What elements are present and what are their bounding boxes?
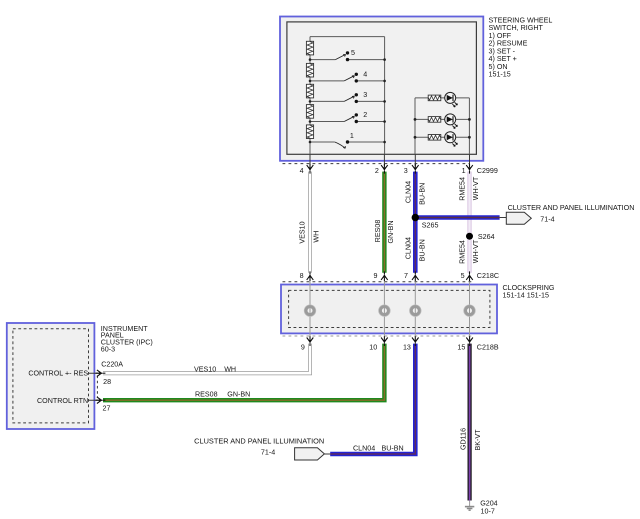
svg-text:BU-BN: BU-BN <box>419 239 427 261</box>
svg-text:WH-VT: WH-VT <box>472 239 480 263</box>
switch 5 <box>335 49 355 61</box>
svg-text:GN-BN: GN-BN <box>387 220 395 243</box>
resistor R2 <box>306 63 313 77</box>
svg-text:60-3: 60-3 <box>101 345 115 353</box>
branch wire from S265 to cluster illumination <box>415 215 499 220</box>
svg-text:5: 5 <box>461 272 465 280</box>
LED D2 <box>445 114 458 128</box>
switch 1 (open) <box>335 132 354 148</box>
switch row 4 wire <box>310 80 385 82</box>
top wire of switch pack <box>310 36 385 38</box>
steering wheel switch inner component box <box>287 22 477 154</box>
switch row 5 wire <box>310 59 385 61</box>
offpage connector: cluster and panel illumination (top) <box>506 212 531 224</box>
svg-text:4: 4 <box>363 71 367 79</box>
pin arrow C2999 pin2 <box>381 164 388 174</box>
switch 3 <box>344 91 367 103</box>
svg-text:7: 7 <box>404 272 408 280</box>
LED right bus <box>468 98 470 154</box>
pin arrow C2999 pin4 <box>307 164 314 174</box>
wire RES08 GN-BN pin10 to IPC pin27 <box>103 344 384 401</box>
svg-text:CLN04: CLN04 <box>405 181 413 203</box>
switch row 3 wire <box>310 100 385 102</box>
C218C pin labels <box>300 272 499 280</box>
IPC connector box <box>7 323 95 429</box>
IPC caption <box>101 325 153 353</box>
svg-text:9: 9 <box>301 344 305 352</box>
svg-text:VES10: VES10 <box>194 365 216 373</box>
pin arrow C218B pin10 <box>381 336 388 346</box>
ground G204 symbol <box>465 507 474 511</box>
IPC pin link lines <box>88 373 99 400</box>
switch 4 <box>344 71 367 83</box>
svg-text:C220A: C220A <box>101 360 123 368</box>
LED resistor row3 <box>428 135 441 141</box>
switch row 2 wire <box>310 121 385 123</box>
pin arrow C218C pin8 <box>307 271 314 281</box>
LED row 3 wires <box>415 136 469 138</box>
svg-text:4: 4 <box>300 167 304 175</box>
switch output bus <box>384 37 386 155</box>
pin arrow C218C pin7 <box>412 271 419 281</box>
resistor R5 <box>306 125 313 139</box>
clockspring internal wire 1 <box>309 282 311 334</box>
svg-text:RES08: RES08 <box>195 390 218 398</box>
svg-text:CLUSTER AND PANEL ILLUMINATION: CLUSTER AND PANEL ILLUMINATION <box>194 437 324 445</box>
connector C218B dashed line <box>283 335 474 337</box>
clockspring coil 1 <box>304 305 316 317</box>
offpage connector: cluster and panel illumination (bottom) <box>295 448 325 460</box>
svg-text:1: 1 <box>350 132 354 140</box>
clockspring coil 3 <box>410 305 422 317</box>
LED D3 <box>445 132 458 147</box>
svg-text:BK-VT: BK-VT <box>474 429 482 451</box>
svg-text:S264: S264 <box>478 233 495 241</box>
svg-text:S265: S265 <box>422 221 439 229</box>
connector C2999 dashed line <box>283 163 470 165</box>
svg-text:CLUSTER AND PANEL ILLUMINATION: CLUSTER AND PANEL ILLUMINATION <box>508 204 635 212</box>
resistor R1 <box>306 41 313 55</box>
LED resistor row1 <box>428 95 441 101</box>
wire RES08 GN-BN pin2 to pin9 <box>382 172 386 273</box>
svg-text:13: 13 <box>403 344 411 352</box>
LED row 2 wires <box>415 118 469 120</box>
splice S264 <box>466 233 473 240</box>
IPC dashed component outline <box>13 329 89 423</box>
IPC pin texts <box>28 360 123 412</box>
clockspring internal wire 4 <box>469 282 471 334</box>
svg-text:1: 1 <box>462 167 466 175</box>
svg-text:RME54: RME54 <box>458 240 466 264</box>
svg-text:10-7: 10-7 <box>481 507 495 515</box>
svg-text:151-14 151-15: 151-14 151-15 <box>503 292 549 300</box>
svg-text:GD116: GD116 <box>459 428 467 450</box>
pin arrow C2999 pin1 <box>466 164 473 174</box>
pin arrow C2999 pin3 <box>412 164 419 174</box>
clockspring internal wire 3 <box>414 282 416 334</box>
pin arrow C220A pin27 <box>96 397 106 404</box>
svg-text:WH: WH <box>313 231 321 243</box>
svg-text:15: 15 <box>457 344 465 352</box>
connector C220A dashed stub <box>96 376 98 398</box>
switch row 1 wire <box>310 141 385 143</box>
clockspring internal wire 2 <box>383 282 385 334</box>
svg-text:27: 27 <box>103 405 111 413</box>
svg-text:28: 28 <box>103 378 111 386</box>
stub wires below clockspring <box>310 333 470 337</box>
svg-text:2: 2 <box>375 167 379 175</box>
resistor ladder vertical line <box>309 37 311 155</box>
svg-text:C2999: C2999 <box>477 167 498 175</box>
svg-text:CONTROL RTN: CONTROL RTN <box>37 397 88 405</box>
svg-text:CONTROL +- RES: CONTROL +- RES <box>28 370 88 378</box>
clockspring coil 2 <box>379 305 391 317</box>
wire CLN04 BU-BN pin3 to pin7 <box>413 172 418 273</box>
svg-text:71-4: 71-4 <box>261 448 275 456</box>
link to offpage arrow bottom <box>324 453 330 455</box>
svg-text:8: 8 <box>300 272 304 280</box>
clockspring coil 4 <box>464 305 476 317</box>
svg-text:VES10: VES10 <box>299 221 307 243</box>
C2999 pin labels <box>300 167 498 175</box>
LED left bus <box>414 98 416 154</box>
svg-text:3: 3 <box>404 167 408 175</box>
svg-text:BU-BN: BU-BN <box>419 183 427 205</box>
wire CLN04 BU-BN pin13 to illumination connector <box>330 344 415 454</box>
clockspring dashed component outline <box>289 290 490 327</box>
wire VES10 WH pin9 to IPC pin28 <box>103 344 310 374</box>
wire GD116 BK-VT pin15 to ground <box>468 344 472 501</box>
svg-text:151-15: 151-15 <box>489 71 511 79</box>
pin arrow C218C pin9 <box>381 271 388 281</box>
svg-text:3: 3 <box>363 91 367 99</box>
switch 2 <box>344 111 367 123</box>
steering wheel switch outer connector box <box>280 17 483 161</box>
wire RME54 WH-VT pin1 to pin5 <box>468 172 472 273</box>
svg-text:C218B: C218B <box>477 344 499 352</box>
svg-text:CLN04: CLN04 <box>405 237 413 259</box>
svg-text:GN-BN: GN-BN <box>227 390 250 398</box>
splice S265 <box>412 214 419 221</box>
pin stub wires below switch box <box>310 154 470 166</box>
svg-text:2: 2 <box>363 111 367 119</box>
pin arrow C218B pin15 <box>466 336 473 346</box>
C218B pin labels <box>301 344 499 352</box>
svg-text:RME54: RME54 <box>458 177 466 201</box>
resistor R3 <box>306 84 313 98</box>
clockspring connector box <box>281 285 497 334</box>
svg-text:9: 9 <box>374 272 378 280</box>
pin arrow C218C pin5 <box>466 271 473 281</box>
link to offpage arrow top <box>500 217 507 219</box>
pin arrow C218B pin13 <box>412 336 419 346</box>
ground lead <box>469 501 471 507</box>
svg-text:WH: WH <box>224 365 236 373</box>
ladder junction dots <box>309 58 386 143</box>
LED D1 <box>445 92 458 107</box>
svg-text:C218C: C218C <box>477 272 499 280</box>
connector C218C dashed line <box>283 281 474 283</box>
pin arrow C218B pin9 <box>307 336 314 346</box>
LED bus junction dots <box>414 118 471 139</box>
svg-text:G204: G204 <box>480 499 497 507</box>
svg-text:RES08: RES08 <box>374 220 382 243</box>
pin arrow C220A pin28 <box>96 370 106 377</box>
horizontal wire labels <box>194 365 250 398</box>
steering wheel switch caption <box>489 16 553 78</box>
svg-text:BU-BN: BU-BN <box>382 444 404 452</box>
LED resistor row2 <box>428 117 441 123</box>
svg-text:5: 5 <box>351 49 355 57</box>
svg-text:10: 10 <box>369 344 377 352</box>
wire VES10 WH pin4 to pin8 <box>308 172 312 273</box>
svg-text:71-4: 71-4 <box>540 215 554 223</box>
svg-text:WH-VT: WH-VT <box>472 176 480 200</box>
LED row 1 wires <box>415 97 469 99</box>
svg-text:CLN04: CLN04 <box>353 444 375 452</box>
resistor R4 <box>306 105 313 119</box>
